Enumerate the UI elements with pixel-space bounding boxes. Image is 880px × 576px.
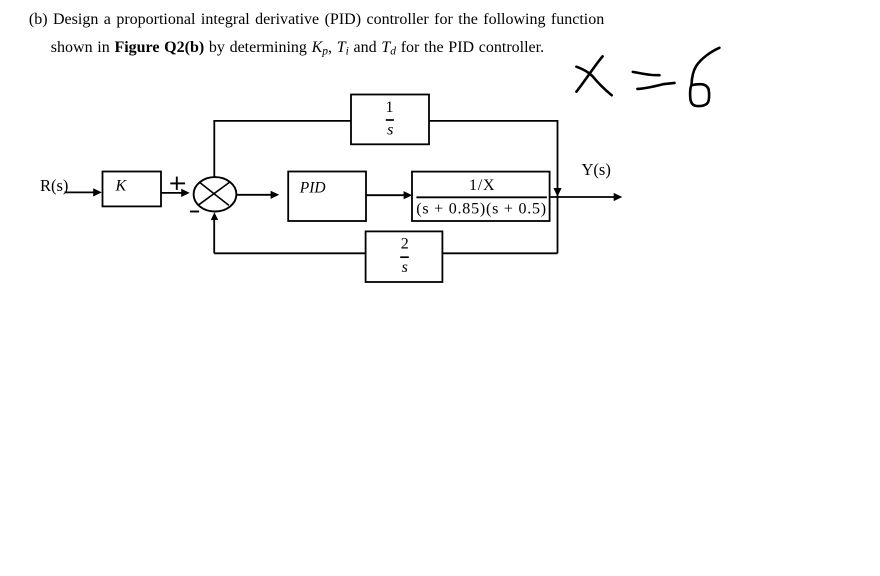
bottom feedback wire vertical into summing junction bbox=[213, 219, 215, 253]
summing junction cross line 2 bbox=[199, 182, 230, 204]
feedback vertical wire at output node bbox=[557, 120, 559, 253]
block 2/s bbox=[366, 231, 443, 282]
svg-text:R(s): R(s) bbox=[40, 176, 68, 195]
fraction bar of 2/s bbox=[400, 256, 409, 258]
wire PID to plant block bbox=[366, 194, 405, 196]
svg-text:K: K bbox=[115, 178, 128, 195]
minus sign at summing junction bbox=[190, 211, 199, 213]
arrowhead into summing junction bbox=[181, 189, 190, 197]
top feedback wire vertical from summing junction bbox=[213, 121, 215, 178]
wire summing junction to PID bbox=[237, 194, 272, 196]
block PID bbox=[288, 172, 366, 222]
block K bbox=[103, 172, 162, 207]
wire R(s) to K bbox=[65, 191, 95, 193]
summing junction circle bbox=[194, 177, 237, 211]
block plant transfer function bbox=[412, 172, 550, 221]
arrowhead output bbox=[614, 193, 623, 201]
svg-text:2: 2 bbox=[401, 235, 409, 252]
handwritten equals bottom stroke bbox=[637, 83, 674, 89]
svg-text:1: 1 bbox=[386, 99, 394, 116]
svg-text:PID: PID bbox=[299, 180, 326, 197]
fraction bar of 1/s bbox=[386, 119, 394, 121]
handwritten equals top stroke bbox=[633, 72, 660, 75]
question text line 1 bbox=[29, 11, 604, 28]
svg-text:s: s bbox=[387, 121, 393, 138]
svg-text:s: s bbox=[402, 259, 408, 276]
plus sign at summing junction bbox=[170, 182, 185, 184]
arrowhead into K bbox=[93, 188, 102, 196]
wire K to summing junction bbox=[161, 192, 182, 194]
svg-text:(s + 0.85)(s + 0.5): (s + 0.85)(s + 0.5) bbox=[416, 200, 547, 217]
top feedback wire horizontal bbox=[213, 120, 557, 122]
bottom feedback wire horizontal bbox=[214, 252, 557, 254]
handwritten 6 bbox=[690, 48, 719, 106]
svg-text:1/X: 1/X bbox=[469, 177, 495, 194]
svg-text:Y(s): Y(s) bbox=[582, 160, 611, 179]
arrowhead up into summing junction bbox=[211, 212, 218, 220]
summing junction cross line 1 bbox=[200, 182, 229, 205]
output wire to Y(s) bbox=[550, 196, 615, 198]
arrowhead into PID bbox=[271, 191, 280, 199]
handwritten X stroke 2 bbox=[576, 67, 611, 96]
question text line 2 bbox=[51, 39, 544, 61]
arrowhead down into output node bbox=[553, 188, 561, 197]
arrowhead into plant block bbox=[404, 191, 413, 199]
block 1/s bbox=[351, 95, 429, 145]
fraction bar of plant block bbox=[416, 196, 547, 198]
handwritten X stroke 1 bbox=[576, 56, 602, 91]
